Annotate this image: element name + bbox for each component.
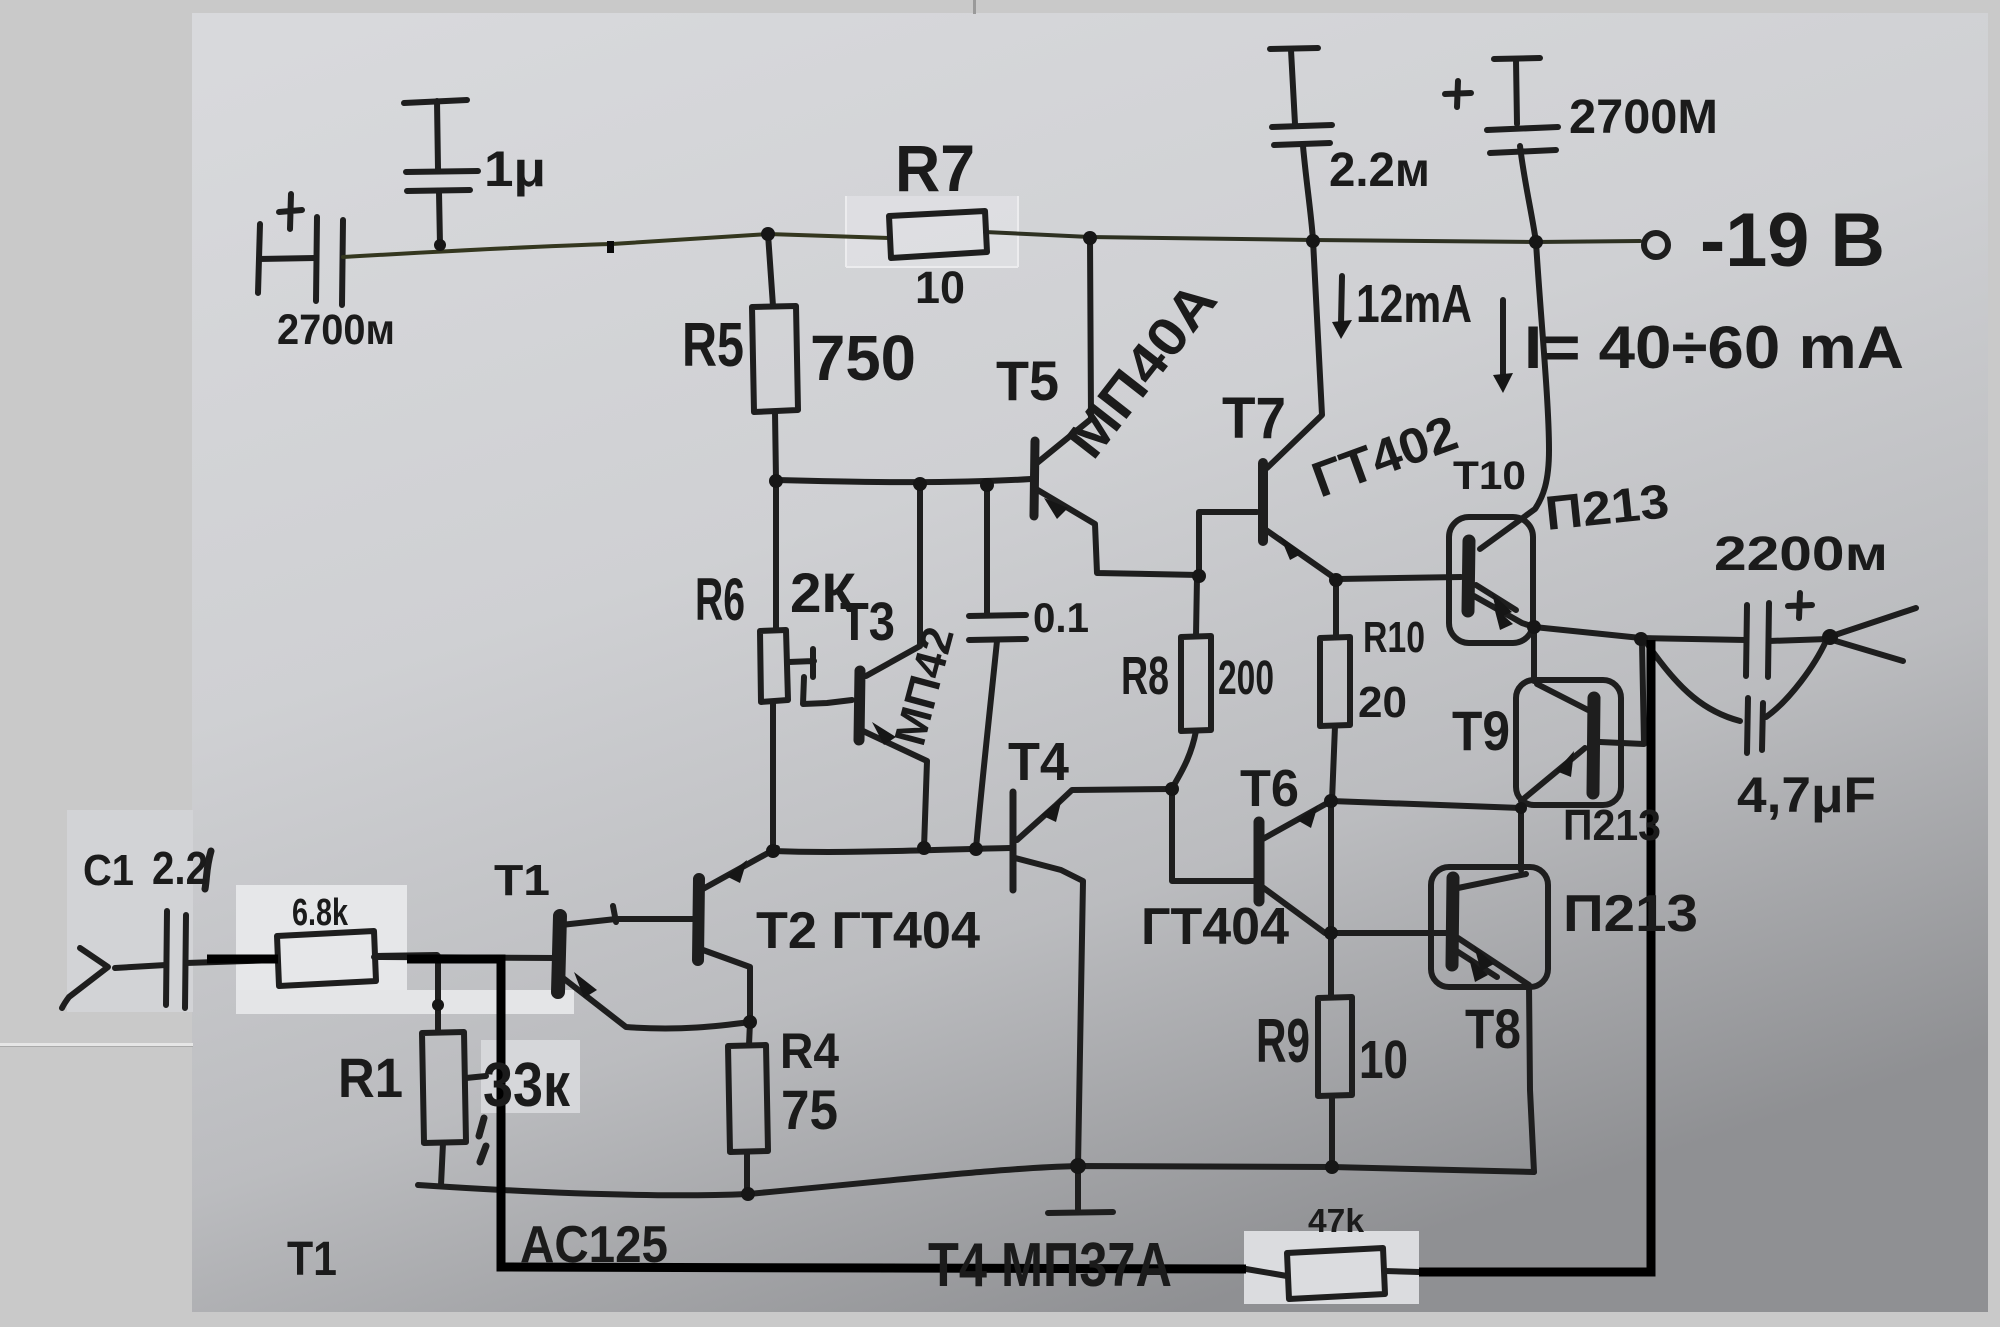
svg-text:R7: R7 [895,131,975,205]
svg-text:0.1: 0.1 [1033,594,1089,641]
capacitor 1u lower stem [439,192,440,245]
svg-text:2700М: 2700М [1569,91,1718,144]
svg-text:Т6: Т6 [1240,760,1299,818]
svg-text:Т4 МП37А: Т4 МП37А [928,1231,1172,1300]
node 1u cap to rail [434,239,446,251]
capacitor 0.1 lower stem [976,641,997,849]
transistor T8 outline [1431,867,1548,987]
patch 6.8k [236,885,407,1010]
transistor T9 base bar [1593,698,1594,793]
svg-text:Т3: Т3 [840,592,895,652]
seam line left margin [0,1043,193,1046]
resistor R7 body [889,211,987,258]
svg-text:2.2м: 2.2м [1329,144,1430,197]
transistor T9 collector riser [1534,629,1588,710]
capacitor 2200u plus [1788,593,1812,618]
wire T7 base riser [1199,512,1257,575]
resistor R5 body [752,306,798,412]
node R10 bottom / T6 emitter [1324,794,1338,808]
capacitor 2700M top bar [1494,58,1540,59]
wire output node [1534,627,1746,640]
resistor R8 body [1181,636,1211,731]
patch input C1 [67,810,193,1012]
wire negative rail (thin) [343,234,889,257]
svg-text:-19 B: -19 B [1700,198,1885,283]
svg-text:200: 200 [1218,652,1274,705]
transistor T9 base riser from output node [1600,642,1644,744]
svg-text:750: 750 [810,322,916,394]
svg-text:R4: R4 [780,1023,839,1079]
svg-text:Т8: Т8 [1465,997,1521,1060]
capacitor C1 right lead [186,960,277,963]
svg-text:10: 10 [915,262,965,313]
svg-text:C1: C1 [83,846,134,895]
node 0.1 bottom on bus [969,842,983,856]
resistor R4 top lead [749,1022,750,1045]
wire rail right of R7 (thin) [985,232,1640,242]
capacitor 2700M lower stem [1520,146,1536,242]
svg-text:4,7μF: 4,7μF [1737,767,1876,823]
transistor T6 base bar [1254,822,1265,901]
resistor R5 bottom lead [775,412,776,480]
capacitor 0.1 plates [969,615,1026,640]
capacitor 2200u plates [1746,603,1769,677]
transistor T9 emitter diagonal [1521,748,1585,801]
output terminal fork [1829,608,1916,661]
resistor R5 top lead [768,234,773,306]
capacitor C1 lead [115,965,166,968]
wire R6 bottom [770,702,776,851]
resistor R10 top lead [1333,580,1339,637]
transistor T7 emitter [1266,530,1336,579]
svg-text:П213: П213 [1563,885,1698,943]
svg-text:Т1: Т1 [494,856,550,905]
svg-text:AC125: AC125 [520,1216,668,1274]
seam tick top middle [973,0,976,14]
node R8 bottom / T4 emitter [1165,782,1179,796]
arrowhead current 12mA [1332,320,1352,339]
arrowhead T8 emitter 1 [1474,946,1494,971]
node 2700M / T10 collector [1529,235,1543,249]
resistor R1 bottom lead [441,1143,443,1185]
node T3 emitter on bus [917,841,931,855]
transistor T4 collector [1015,858,1083,1166]
wire T4 emitter to node [1017,789,1172,840]
svg-text:R10: R10 [1363,613,1425,662]
wire T8 base [1331,930,1446,936]
node T3 collector on bus [913,477,927,491]
transistor T3 collector [866,484,920,676]
arrowhead T9 emitter [1556,751,1574,777]
svg-text:47k: 47k [1308,1202,1365,1239]
capacitor 2700M plus [1445,81,1471,107]
capacitor 4.7uF plates [1747,698,1763,753]
glyph clipped after 2.2 [205,851,211,889]
svg-text:1μ: 1μ [484,141,546,197]
svg-text:Т5: Т5 [996,349,1059,412]
capacitor C 2700u lead [259,258,315,259]
node R5 bottom bus [769,474,783,488]
svg-text:Т7: Т7 [1222,386,1286,451]
transistor T6 collector [1261,886,1325,933]
node T6 collector / T8 base [1324,926,1338,940]
svg-text:R8: R8 [1121,646,1169,706]
capacitor 2.2u stem [1291,50,1295,124]
transistor T7 collector [1267,240,1322,468]
transistor T4 base bar [1010,792,1017,890]
transistor T5 base bar [1034,441,1035,516]
resistor R1 body [422,1032,466,1143]
input fork [62,948,108,1008]
svg-text:R1: R1 [338,1046,403,1109]
wire feedback input segment [207,955,278,964]
terminal -19V circle [1644,233,1668,257]
capacitor 4.7uF left lead [1646,642,1740,721]
wire R6 upper [773,481,779,630]
node T4 collector bus / ground [1070,1158,1086,1174]
wire lower bus [773,848,1010,852]
ground symbol [1048,1167,1113,1213]
capacitor C1 plates [166,911,186,1008]
capacitor 2700M stem [1516,60,1517,124]
erased marks right of R1 [479,1118,486,1162]
svg-text:2.2: 2.2 [152,842,208,894]
resistor R4 body [728,1045,768,1152]
capacitor 2.2u top bar [1270,48,1318,49]
wire feedback right and riser to output [1419,640,1651,1272]
resistor 47k leads [1246,1269,1419,1276]
wire R9 vertical [1328,801,1334,997]
transistor T2 collector [703,950,750,1022]
capacitor C 2700u plus sign [279,194,302,229]
svg-text:33к: 33к [483,1051,571,1120]
svg-text:ГТ404: ГТ404 [1141,898,1289,956]
resistor R8 bottom lead [1172,731,1196,789]
transistor T3 base bar [859,671,860,740]
resistor R9 bottom lead [1329,1096,1335,1167]
node R6 bottom bus [766,844,780,858]
capacitor 1u top bar [404,100,467,103]
resistor 6.8k body [277,931,376,986]
wire T9 base [1331,801,1521,808]
transistor T6 emitter [1261,801,1331,840]
trimmer R6 wiper [789,649,852,704]
wire T6 base [1172,789,1255,881]
transistor T3 emitter [863,731,927,848]
transistor T1 base bar [558,916,560,992]
transistor T5 collector [1037,238,1091,463]
capacitor C 2700u input supply: end bar [258,224,260,293]
svg-text:12mA: 12mA [1356,274,1472,334]
node T9 base / T8 collector [1515,802,1527,814]
node T7 emitter / R10 [1329,573,1343,587]
node output terminal fork [1822,629,1838,645]
svg-text:10: 10 [1359,1030,1408,1090]
node R4 bottom bus [741,1187,755,1201]
node output / feedback [1634,632,1648,646]
arrowhead T5 emitter [1044,498,1068,519]
node 0.1 top on bus [980,478,994,492]
arrowhead T3 emitter [872,722,896,745]
tick R1 to 33k [466,1076,486,1078]
svg-text:2200м: 2200м [1714,528,1888,581]
svg-text:Т4: Т4 [1008,732,1069,792]
wire bottom bus [418,1166,1534,1195]
arrowhead T1 emitter [574,972,597,998]
patch 47k [1244,1231,1419,1304]
svg-text:I= 40÷60 mA: I= 40÷60 mA [1524,314,1904,381]
transistor T1 base wire [374,957,556,958]
arrowhead T6 emitter [1297,805,1318,828]
arrowhead T10 emitter 1 [1492,593,1512,618]
transistor T7 base bar [1258,463,1268,541]
capacitor 1u plates [406,171,478,191]
transistor T1 collector [561,919,616,925]
resistor R8 top lead [1196,577,1197,636]
capacitor 2200u right lead [1769,639,1828,641]
transistor T9 outline [1516,680,1621,805]
svg-text:Т1: Т1 [287,1233,337,1286]
svg-text:П213: П213 [1563,801,1661,850]
transistor T2 base wire [613,906,695,922]
capacitor 4.7uF right lead [1766,641,1826,717]
node 2.2u / T7 collector [1306,234,1320,248]
current arrow 12mA [1341,276,1342,324]
rail tick [607,241,614,253]
node T2 collector / R4 [743,1015,757,1029]
transistor T8 collector [1458,807,1526,888]
transistor T10 emitter [1474,585,1534,627]
transistor T10 collector [1480,242,1549,549]
wire T10 base [1338,577,1461,579]
trimmer R6 body [760,630,788,702]
wire upper bus [776,479,1031,482]
current arrow I [1500,300,1506,378]
patch R7 [846,196,1018,267]
svg-text:75: 75 [781,1078,838,1141]
resistor R10 bottom lead [1332,726,1335,801]
wire feedback left and bottom [407,959,1246,1269]
node T5 emitter / R8 / T7 base [1192,569,1206,583]
svg-text:R5: R5 [682,311,744,380]
capacitor C 2700u plates [316,217,317,301]
resistor 47k body [1287,1248,1385,1299]
arrowhead T8 emitter 2 [1469,958,1488,982]
capacitor 2700M plates [1487,127,1558,153]
transistor T8 emitter [1455,938,1534,1172]
node R1 top [432,999,444,1011]
svg-text:R6: R6 [695,566,745,633]
transistor T10 base bar [1468,541,1469,611]
arrowhead T7 emitter [1280,536,1303,560]
arrowhead T4 emitter [1041,798,1062,822]
arrowhead T2 emitter [726,860,747,883]
svg-text:R9: R9 [1256,1007,1310,1076]
resistor R4 bottom lead [744,1152,750,1194]
capacitor 1u stem [437,101,438,169]
transistor T8 base bar [1452,878,1453,965]
node R7 right / T5 collector [1083,231,1097,245]
transistor T2 emitter [701,848,777,890]
resistor R9 body [1318,997,1352,1096]
svg-text:Т10: Т10 [1453,454,1526,498]
capacitor 0.1 upper stem [984,485,990,614]
svg-text:Т2 ГТ404: Т2 ГТ404 [756,902,980,960]
wire 6.8k to T1 [376,955,437,956]
resistor R10 body [1320,637,1350,726]
svg-text:Т9: Т9 [1452,699,1510,762]
patch 33k [481,1040,580,1113]
capacitor 2.2u lower stem [1303,146,1313,240]
resistor R1 top lead [435,956,441,1032]
arrowhead current I [1493,373,1513,393]
transistor T5 emitter [1036,489,1199,575]
svg-text:20: 20 [1358,678,1407,727]
svg-text:2700м: 2700м [277,306,395,354]
transistor T10 outline [1449,517,1533,643]
node R5 to rail [761,227,775,241]
capacitor 2.2u plates [1272,125,1332,145]
svg-text:6.8k: 6.8k [292,892,349,934]
arrowhead T10 emitter 2 [1494,607,1513,630]
node R9 bottom bus [1325,1160,1339,1174]
node T10 emitter output [1527,620,1541,634]
transistor T2 base bar [698,879,699,960]
transistor T1 emitter [563,978,750,1028]
